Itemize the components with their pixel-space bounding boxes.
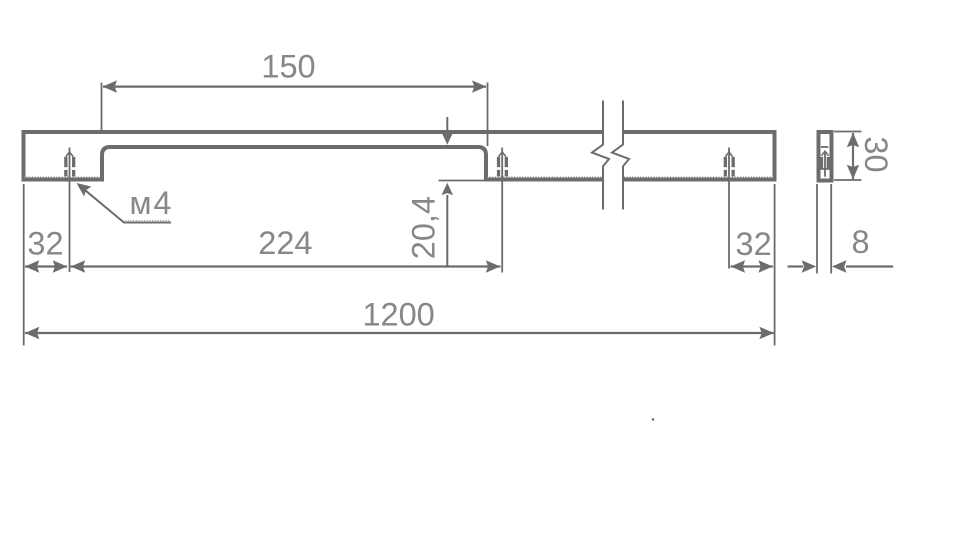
handle outline left part (front view) xyxy=(24,132,604,180)
M4 leader line xyxy=(79,185,172,223)
end view screw thread bars xyxy=(820,157,829,168)
screw S2 chevron xyxy=(499,152,506,157)
break line right xyxy=(612,101,629,210)
left edge extension line (for 32 and 1200) xyxy=(23,184,25,346)
dimension 32 right line xyxy=(731,265,774,267)
svg-text:м4: м4 xyxy=(130,185,174,221)
right edge extension line (for 32 and 1200) xyxy=(774,184,776,346)
end view rectangle xyxy=(819,132,832,181)
dimension 150 arrow right xyxy=(472,80,487,92)
dimension 30 extension top xyxy=(834,131,862,133)
dimension 32 right arrow right xyxy=(758,260,773,272)
screw S3 chevron xyxy=(725,152,732,157)
bottom edge halftone texture xyxy=(24,177,773,221)
speck artifact xyxy=(652,418,654,420)
svg-text:32: 32 xyxy=(736,226,772,262)
dimension 224 arrow right xyxy=(486,260,501,272)
break line left xyxy=(592,101,609,210)
screw S1 chevron xyxy=(66,152,73,157)
dimension 150 extension line left xyxy=(101,83,103,132)
dimension 8 extension left xyxy=(816,184,818,274)
end view screw tip dash xyxy=(821,146,828,148)
dimension 150 arrow left xyxy=(103,80,118,92)
dimension 30 arrow down xyxy=(847,165,859,180)
dimension 8 right tail and arrow xyxy=(846,265,893,267)
dimension 32 left arrow left xyxy=(25,260,40,272)
dimension 8 left tail and arrow xyxy=(788,265,803,267)
dimension 8 extension right xyxy=(830,184,832,274)
screw S1 thread bars xyxy=(64,157,75,177)
dimension 20,4 upper arrow (pointing down at grip surface) xyxy=(446,117,448,135)
dimension 224 arrow left xyxy=(71,260,86,272)
svg-text:1200: 1200 xyxy=(362,297,434,333)
screw S3 thread bars xyxy=(724,157,735,177)
dimension 20,4 reference tick at foot bottom xyxy=(439,180,485,182)
end view screw centerline xyxy=(824,153,826,177)
svg-text:224: 224 xyxy=(258,225,312,261)
handle outline right part (front view) xyxy=(623,132,775,180)
dimension 30 arrow up xyxy=(847,133,859,148)
dimension 150 line xyxy=(103,85,486,87)
svg-text:32: 32 xyxy=(27,226,63,262)
dimension 32 right arrow left xyxy=(731,260,746,272)
end view screw crossbar xyxy=(819,168,830,170)
screw S2 thread bars xyxy=(497,157,508,177)
dimension 1200 arrow left xyxy=(25,327,40,339)
dimension 150 extension line right xyxy=(487,83,489,147)
svg-text:20,4: 20,4 xyxy=(406,196,442,259)
dimension 30 line xyxy=(852,133,854,179)
dimension 224 line xyxy=(71,265,501,267)
dimension 32 left line xyxy=(25,265,67,267)
dimension 32 left arrow right xyxy=(53,260,67,272)
svg-text:8: 8 xyxy=(851,224,869,260)
screw S1 centerline xyxy=(69,148,71,273)
M4 leader arrowhead xyxy=(77,183,92,197)
svg-text:150: 150 xyxy=(261,49,315,85)
svg-text:30: 30 xyxy=(858,136,894,172)
dimension 1200 line xyxy=(25,332,774,334)
dimension 30 extension bottom xyxy=(834,179,862,181)
screw S3 centerline xyxy=(728,148,730,269)
dimension 1200 arrow right xyxy=(759,327,774,339)
end view screw chevron xyxy=(821,151,828,156)
dimension 20,4 lower arrow (pointing up at bottom line) xyxy=(446,195,448,267)
screw S2 centerline xyxy=(501,148,503,273)
